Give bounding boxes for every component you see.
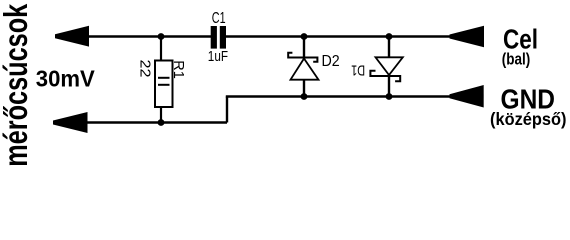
svg-text:22: 22 bbox=[137, 60, 154, 78]
wire R1 top lead bbox=[160, 37, 162, 62]
svg-text:C1: C1 bbox=[212, 10, 226, 27]
wire R1 bottom lead bbox=[160, 107, 162, 123]
connector arrow Cel bbox=[450, 26, 485, 48]
svg-text:R1: R1 bbox=[170, 60, 187, 79]
svg-text:D2: D2 bbox=[322, 53, 340, 70]
svg-text:D1: D1 bbox=[351, 62, 365, 79]
wire ground bus bbox=[226, 95, 450, 97]
svg-text:1uF: 1uF bbox=[208, 48, 228, 65]
wire top-left segment bbox=[88, 35, 212, 37]
probe arrow bottom-left bbox=[53, 112, 88, 133]
svg-text:(bal): (bal) bbox=[502, 50, 531, 69]
svg-text:30mV: 30mV bbox=[36, 66, 96, 92]
resistor R1 bbox=[155, 61, 173, 108]
junction dot node F (bus, D1) bbox=[386, 93, 393, 100]
capacitor C1 bbox=[211, 26, 226, 49]
probe arrow top-left bbox=[55, 26, 89, 47]
svg-text:(középső): (középső) bbox=[490, 109, 567, 129]
junction dot node E (bus, D2) bbox=[301, 93, 308, 100]
junction dot node D (bottom, R1) bbox=[158, 119, 165, 126]
connector arrow GND bbox=[450, 85, 484, 108]
wire step vertical bbox=[226, 97, 228, 123]
junction dot node B (top, D2) bbox=[301, 33, 308, 40]
wire top-right segment bbox=[225, 35, 450, 37]
junction dot node A (top, R1) bbox=[158, 33, 165, 40]
zener diode D2 bbox=[288, 37, 318, 97]
svg-text:mérőcsúcsok: mérőcsúcsok bbox=[0, 3, 34, 166]
junction dot node C (top, D1) bbox=[386, 33, 393, 40]
wire bottom-left segment bbox=[87, 121, 228, 123]
zener diode D1 bbox=[370, 37, 402, 97]
